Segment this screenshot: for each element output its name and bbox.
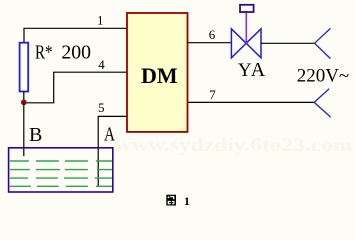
water level dashes row 3: [10, 177, 112, 179]
tank: [9, 148, 113, 192]
node junction dot: [21, 99, 27, 105]
resistor R*: [20, 43, 29, 92]
solenoid valve YA body: [231, 29, 261, 58]
supply connector L: [315, 28, 331, 58]
supply connector N: [314, 89, 331, 117]
controller U1 DM box: [127, 13, 188, 132]
wire 7 DM to supply N: [188, 101, 314, 103]
wire resistor bottom to node: [23, 92, 25, 103]
svg-text:DM: DM: [141, 63, 178, 88]
wire 6 DM to valve: [188, 42, 231, 44]
svg-text:7: 7: [209, 87, 216, 102]
solenoid actuator stem: [245, 12, 247, 43]
solenoid coil box: [240, 5, 254, 12]
wire 5 electrode A to DM: [98, 116, 127, 186]
svg-text:6: 6: [209, 27, 216, 42]
water level dashes row 4: [10, 185, 112, 187]
svg-text:220V~: 220V~: [297, 66, 350, 87]
wire valve to supply L: [261, 42, 315, 44]
svg-text:5: 5: [98, 100, 105, 115]
svg-text:4: 4: [98, 57, 105, 72]
svg-text:A: A: [104, 124, 115, 146]
caption glyph tu (figure): [166, 195, 176, 206]
svg-text:YA: YA: [238, 59, 266, 81]
water level dashes row 2: [10, 169, 112, 171]
electrode B wire: [23, 103, 25, 157]
wire 4 node to DM: [24, 72, 127, 103]
wire pin1 from resistor top to DM: [24, 28, 127, 43]
water level dashes row 1: [10, 160, 112, 162]
svg-text:1: 1: [97, 13, 104, 28]
svg-text:R*200: R*200: [35, 42, 91, 64]
svg-text:B: B: [29, 124, 42, 146]
svg-text:1: 1: [184, 194, 190, 207]
svg-text:www.sydzdiy.6to23.com: www.sydzdiy.6to23.com: [115, 135, 353, 156]
